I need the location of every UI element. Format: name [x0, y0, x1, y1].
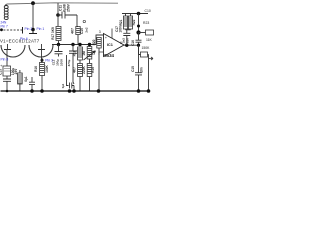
capacitor C16 [136, 33, 142, 46]
capacitor C11 coupling [56, 13, 60, 17]
resistor R23 [139, 32, 146, 34]
output wire [124, 44, 139, 46]
junction cathode V1b [41, 59, 44, 62]
svg-text:C13: C13 [0, 69, 3, 75]
svg-text:4K7: 4K7 [73, 67, 77, 73]
svg-text:Pin 6: Pin 6 [20, 37, 28, 41]
svg-text:+: + [0, 63, 3, 68]
svg-text:1K: 1K [92, 50, 96, 55]
grid bar [22, 27, 24, 34]
svg-text:IC1: IC1 [107, 42, 114, 47]
svg-text:C15: C15 [80, 28, 84, 34]
cathode V1b [38, 44, 45, 63]
top right rail [122, 13, 148, 15]
node anode junction [31, 28, 35, 32]
svg-text:250V: 250V [67, 3, 71, 12]
resistor R17 anode load [57, 15, 59, 27]
svg-text:2n2: 2n2 [85, 27, 89, 33]
ground bus [1, 90, 151, 92]
cathode V1a [4, 44, 11, 66]
svg-text:Pin 2: Pin 2 [25, 27, 33, 31]
junction top rail node A [31, 1, 35, 5]
svg-text:3: 3 [99, 30, 101, 34]
svg-text:R17 3K9: R17 3K9 [51, 27, 55, 40]
svg-text:1M: 1M [82, 51, 86, 56]
svg-text:470µ: 470µ [67, 59, 71, 66]
svg-text:4K7: 4K7 [71, 28, 75, 34]
terminal circle divider tap [83, 20, 85, 22]
wire right column [138, 14, 140, 33]
node wire mid [52, 44, 96, 46]
svg-text:Pin 1: Pin 1 [37, 27, 45, 31]
wire top rail [7, 3, 118, 4]
resistor R16 [40, 63, 45, 76]
resistor divider top [76, 27, 80, 35]
anode plate V1 [29, 30, 37, 34]
svg-text:5534: 5534 [104, 53, 114, 58]
feedback caps [123, 30, 130, 45]
svg-text:0µ1: 0µ1 [24, 76, 28, 82]
svg-text:220K: 220K [82, 65, 86, 73]
pin 7 supply [111, 29, 113, 39]
svg-text:11K: 11K [146, 38, 153, 42]
wire anode V1a [32, 3, 34, 29]
capacitor grid bottom [29, 77, 35, 91]
inductor L1 [4, 4, 8, 20]
svg-text:10n: 10n [140, 67, 144, 73]
pot arrow [84, 51, 96, 60]
tube V1 envelope left arc [1, 45, 25, 57]
output arrow [149, 57, 154, 60]
svg-text:0µ1: 0µ1 [61, 83, 65, 88]
svg-text:R16: R16 [34, 66, 38, 72]
resistor R20 [97, 38, 101, 49]
svg-text:C10: C10 [145, 9, 151, 13]
svg-text:R23: R23 [143, 21, 149, 25]
svg-text:100V: 100V [59, 59, 63, 66]
resistor lower R18b [78, 64, 83, 77]
wire C11 to divider [77, 15, 78, 27]
svg-text:C15: C15 [131, 66, 135, 72]
capacitor C15 [135, 45, 142, 91]
wire pin2 [99, 52, 103, 55]
resistor R22 [128, 16, 132, 29]
op-amp IC1 [104, 34, 125, 57]
svg-text:Pin 7: Pin 7 [1, 24, 8, 28]
svg-text:Pin 8: Pin 8 [1, 58, 9, 62]
capacitor 470u [69, 45, 77, 85]
svg-text:R18: R18 [73, 50, 77, 56]
svg-text:R20: R20 [92, 39, 96, 45]
svg-text:100K: 100K [45, 64, 49, 72]
wire to op-amp plus input [96, 35, 103, 45]
svg-text:C16: C16 [131, 40, 135, 46]
capacitor C12 [55, 45, 63, 57]
svg-text:63V: 63V [125, 38, 129, 43]
resistor Rk cathode [18, 73, 23, 84]
svg-text:R22: R22 [132, 19, 136, 25]
capacitor C13 electrolytic [3, 66, 11, 76]
resistor R19 lower [87, 64, 92, 77]
svg-text:R21: R21 [119, 19, 123, 25]
junction grid input [0, 28, 3, 31]
resistor R19 [87, 47, 92, 60]
tube V1 envelope right arc [29, 45, 53, 57]
resistor R18 [78, 47, 83, 60]
svg-text:R19: R19 [91, 67, 95, 73]
grid wire dashed V1 [0, 29, 22, 31]
svg-text:150K: 150K [142, 46, 151, 50]
resistor R21 [123, 16, 127, 29]
